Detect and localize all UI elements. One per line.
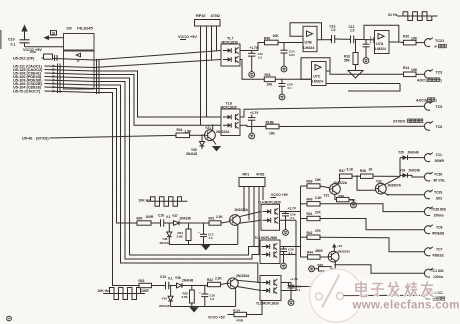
svg-text:80 VOL: 80 VOL bbox=[434, 178, 446, 182]
svg-text:S03: S03 bbox=[436, 197, 442, 201]
svg-text:+1.7V: +1.7V bbox=[250, 46, 259, 50]
svg-text:Y36: Y36 bbox=[175, 276, 181, 280]
svg-text:2N2222A: 2N2222A bbox=[236, 274, 250, 278]
svg-text:R31: R31 bbox=[209, 217, 215, 221]
svg-text:(STXD): (STXD) bbox=[36, 137, 49, 141]
svg-text:R38: R38 bbox=[360, 169, 366, 173]
svg-text:Y35: Y35 bbox=[398, 151, 404, 155]
svg-text:MCPL2630: MCPL2630 bbox=[221, 105, 237, 109]
svg-text:R42: R42 bbox=[307, 231, 313, 235]
svg-text:470Ω: 470Ω bbox=[256, 173, 265, 177]
svg-text:2N2222A: 2N2222A bbox=[334, 181, 348, 185]
svg-text:R37: R37 bbox=[339, 169, 345, 173]
svg-text:U9: U9 bbox=[67, 26, 73, 31]
svg-text:2N2907A: 2N2907A bbox=[388, 184, 402, 188]
svg-text:+1.7V: +1.7V bbox=[288, 207, 297, 211]
svg-text:74LS245: 74LS245 bbox=[77, 26, 94, 31]
svg-text:2N4148: 2N4148 bbox=[408, 151, 419, 155]
svg-text:0.01: 0.01 bbox=[289, 53, 295, 57]
svg-text:1.5K: 1.5K bbox=[185, 130, 192, 134]
svg-text:10K: 10K bbox=[411, 36, 418, 40]
svg-text:0.1: 0.1 bbox=[11, 43, 16, 47]
svg-text:R41: R41 bbox=[307, 212, 313, 216]
svg-text:100R: 100R bbox=[141, 289, 149, 293]
svg-text:2.2K: 2.2K bbox=[216, 215, 223, 219]
svg-text:U5-70 (CAOC7): U5-70 (CAOC7) bbox=[13, 89, 41, 93]
svg-text:Y34: Y34 bbox=[400, 169, 406, 173]
svg-text:1.0: 1.0 bbox=[350, 29, 355, 33]
svg-text:470Ω: 470Ω bbox=[211, 14, 220, 18]
svg-text:27K: 27K bbox=[315, 229, 322, 233]
svg-text:0.1: 0.1 bbox=[166, 215, 171, 219]
svg-text:2N2222A: 2N2222A bbox=[338, 250, 352, 254]
svg-text:+1.7V: +1.7V bbox=[290, 277, 298, 281]
svg-text:TL3 MCPL2630: TL3 MCPL2630 bbox=[255, 236, 278, 240]
svg-text:2N4148: 2N4148 bbox=[409, 169, 420, 173]
svg-text:01 Hz: 01 Hz bbox=[388, 13, 398, 17]
svg-text:RP10: RP10 bbox=[196, 14, 206, 18]
svg-text:TC21: TC21 bbox=[435, 39, 444, 43]
svg-text:AOC1(: AOC1( bbox=[417, 78, 429, 82]
svg-text:19: 19 bbox=[52, 31, 56, 35]
svg-text:C19: C19 bbox=[160, 275, 166, 279]
svg-text:LM324: LM324 bbox=[312, 80, 323, 84]
svg-text:Y31: Y31 bbox=[324, 194, 330, 198]
svg-text:10K: 10K bbox=[411, 68, 418, 72]
svg-text:360R: 360R bbox=[315, 249, 323, 253]
svg-text:MCPL2630: MCPL2630 bbox=[222, 40, 238, 44]
svg-text:U5-46: U5-46 bbox=[22, 137, 32, 141]
svg-text:C10: C10 bbox=[8, 38, 15, 42]
svg-text:/PDES8: /PDES8 bbox=[432, 232, 444, 236]
svg-text:2N4148: 2N4148 bbox=[160, 241, 171, 245]
svg-text:+: + bbox=[199, 290, 201, 294]
svg-text:Y40: Y40 bbox=[162, 297, 168, 301]
svg-text:RP1: RP1 bbox=[243, 173, 250, 177]
svg-text:VCCO +5V: VCCO +5V bbox=[178, 35, 197, 39]
svg-text:+5V: +5V bbox=[337, 244, 342, 248]
svg-text:R30: R30 bbox=[137, 217, 143, 221]
svg-text:TC29: TC29 bbox=[434, 191, 442, 195]
svg-text:3.6K: 3.6K bbox=[182, 295, 189, 299]
svg-text:U7B: U7B bbox=[305, 41, 313, 45]
svg-text:10K: 10K bbox=[315, 178, 322, 182]
svg-text:2N2222A: 2N2222A bbox=[235, 208, 249, 212]
svg-text:R40: R40 bbox=[307, 197, 313, 201]
svg-text:TC30: TC30 bbox=[434, 172, 442, 176]
svg-text:www.elecfans.com: www.elecfans.com bbox=[352, 300, 460, 312]
svg-text:R34: R34 bbox=[177, 128, 183, 132]
svg-text:LM324: LM324 bbox=[303, 46, 314, 50]
svg-text:LM324: LM324 bbox=[375, 47, 386, 51]
svg-text:TC1: TC1 bbox=[436, 153, 443, 157]
svg-text:R107: R107 bbox=[233, 308, 241, 312]
svg-text:1.0: 1.0 bbox=[209, 236, 214, 240]
svg-text:R14B: R14B bbox=[266, 120, 275, 124]
svg-text:TC3: TC3 bbox=[436, 71, 443, 75]
svg-text:TC1 802: TC1 802 bbox=[431, 269, 444, 273]
svg-text:TC28 80S: TC28 80S bbox=[431, 207, 447, 211]
svg-text:U5-102 (OF): U5-102 (OF) bbox=[13, 57, 35, 61]
svg-text:0.1: 0.1 bbox=[291, 216, 296, 220]
svg-text:27K: 27K bbox=[315, 211, 322, 215]
svg-text:U7A: U7A bbox=[376, 42, 384, 46]
svg-text:10K: 10K bbox=[269, 132, 276, 136]
svg-text:0.1: 0.1 bbox=[296, 288, 301, 292]
svg-text:470R: 470R bbox=[236, 318, 244, 322]
svg-text:VCCO +5V: VCCO +5V bbox=[208, 316, 226, 320]
svg-text:1K: 1K bbox=[369, 168, 374, 172]
svg-text:2.2K: 2.2K bbox=[315, 196, 322, 200]
svg-text:+1.7V: +1.7V bbox=[250, 111, 259, 115]
svg-text:Y32: Y32 bbox=[376, 180, 382, 184]
svg-text:VCCO +5V: VCCO +5V bbox=[271, 193, 289, 197]
svg-text:2.2K: 2.2K bbox=[215, 277, 222, 281]
svg-text:TL4 MCPL2630: TL4 MCPL2630 bbox=[258, 201, 281, 205]
svg-text:2N4148: 2N4148 bbox=[180, 216, 191, 220]
svg-text:1.0: 1.0 bbox=[331, 28, 336, 32]
svg-text:1.0: 1.0 bbox=[210, 297, 215, 301]
svg-text:10K Hz: 10K Hz bbox=[98, 289, 110, 293]
svg-text:R39: R39 bbox=[307, 180, 313, 184]
svg-text:R40: R40 bbox=[264, 37, 270, 41]
svg-text:U7C: U7C bbox=[313, 75, 321, 79]
svg-text:10K Hz: 10K Hz bbox=[139, 199, 151, 203]
svg-text:20WR: 20WR bbox=[435, 159, 445, 163]
svg-text:R14: R14 bbox=[403, 66, 409, 70]
svg-text:2N4148: 2N4148 bbox=[182, 279, 193, 283]
svg-text:TC8: TC8 bbox=[436, 226, 443, 230]
svg-text:100ms: 100ms bbox=[434, 213, 444, 217]
svg-text:2N2222A: 2N2222A bbox=[216, 130, 230, 134]
svg-text:50K: 50K bbox=[344, 59, 351, 63]
svg-text:R44: R44 bbox=[307, 251, 313, 255]
svg-text:10K: 10K bbox=[267, 83, 274, 87]
svg-text:0.1: 0.1 bbox=[288, 86, 293, 90]
svg-text:R33: R33 bbox=[139, 279, 145, 283]
svg-text:10K: 10K bbox=[273, 34, 280, 38]
svg-text:VCCO +5V: VCCO +5V bbox=[23, 48, 42, 52]
svg-text:2N4148: 2N4148 bbox=[159, 304, 170, 308]
svg-text:R36: R36 bbox=[339, 194, 345, 198]
svg-text:120ms: 120ms bbox=[433, 275, 443, 279]
svg-text:R32: R32 bbox=[207, 278, 213, 282]
svg-text:C18: C18 bbox=[158, 214, 164, 218]
svg-text:2N4148: 2N4148 bbox=[186, 152, 197, 156]
svg-text:3.6K: 3.6K bbox=[177, 235, 184, 239]
svg-text:TC7: TC7 bbox=[436, 248, 443, 252]
svg-text:0.1: 0.1 bbox=[168, 276, 173, 280]
svg-text:STXDO: STXDO bbox=[393, 119, 406, 123]
svg-text:5.1K: 5.1K bbox=[347, 168, 354, 172]
svg-text:Y37: Y37 bbox=[172, 214, 178, 218]
svg-text:PDES2: PDES2 bbox=[433, 254, 444, 258]
svg-text:0.1: 0.1 bbox=[258, 56, 263, 60]
svg-text:+: + bbox=[198, 231, 200, 235]
svg-text:100R: 100R bbox=[146, 215, 154, 219]
svg-text:R10: R10 bbox=[403, 35, 409, 39]
svg-text:R46: R46 bbox=[318, 263, 324, 267]
svg-text:TC6: TC6 bbox=[436, 125, 443, 129]
svg-text:TC5: TC5 bbox=[436, 105, 443, 109]
svg-text:AOC3(: AOC3( bbox=[416, 98, 428, 102]
svg-text:Y21: Y21 bbox=[205, 126, 211, 130]
svg-text:R43: R43 bbox=[265, 73, 271, 77]
svg-text:TL2 MCPL2630: TL2 MCPL2630 bbox=[256, 302, 279, 306]
